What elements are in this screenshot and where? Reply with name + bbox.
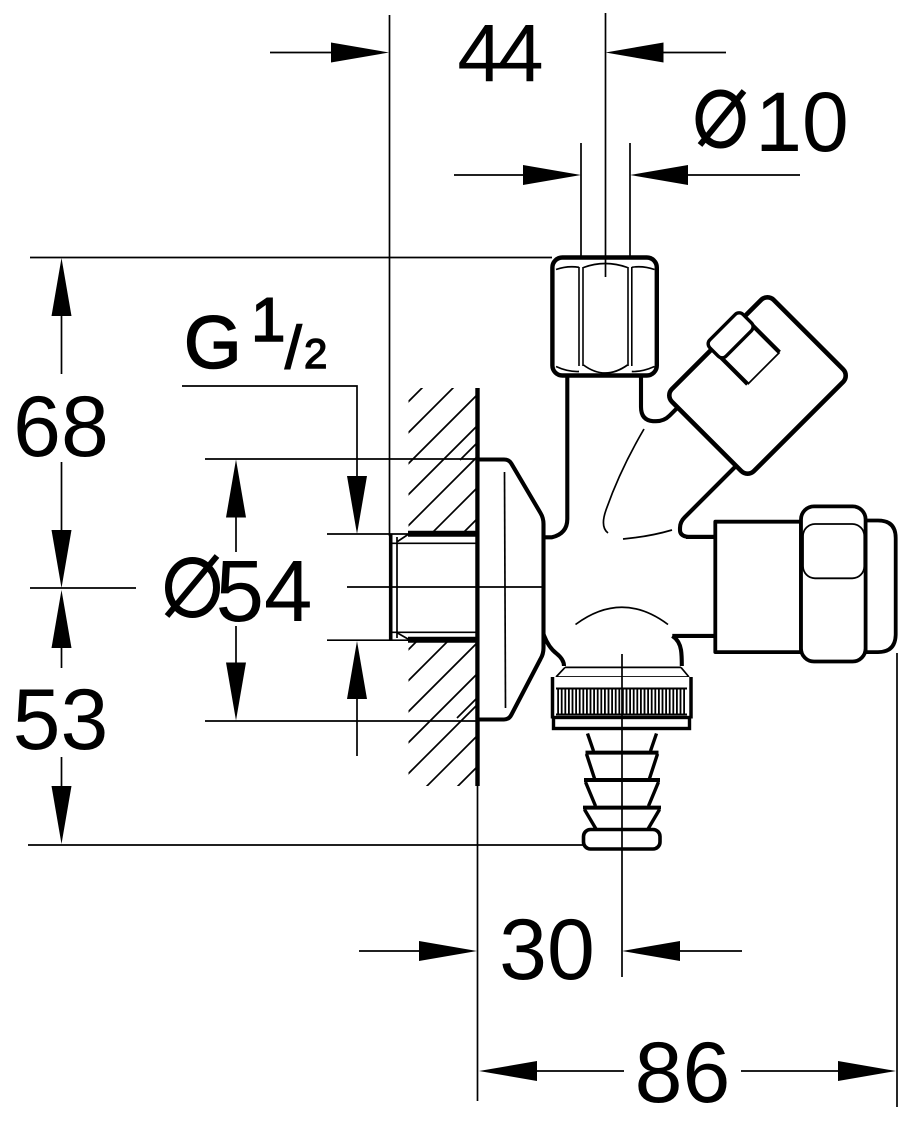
hex nut facet lines: [578, 267, 580, 366]
45deg tube lower wall / pocket: [680, 466, 736, 537]
barb ridge lines: [586, 751, 659, 755]
dimension 86 line: [533, 1070, 624, 1072]
svg-text:G: G: [184, 301, 242, 384]
wall face line: [475, 388, 479, 786]
top outlet neck right / 45deg tube upper wall: [641, 376, 679, 421]
svg-text:2: 2: [304, 330, 327, 377]
dimension 68 arrows: [61, 310, 63, 374]
thread pipe end face: [389, 534, 393, 642]
G1/2 thread crest bars: [408, 531, 477, 537]
bottom outlet centreline / 30 extension: [621, 654, 623, 977]
thread end face inner line: [396, 537, 398, 638]
dimension Ø54 text: [169, 561, 217, 615]
thread diameter reference lines: [327, 533, 410, 535]
wall hatching: [20, 385, 859, 790]
dimension 44 extension line: [389, 15, 391, 536]
hose barb: [585, 734, 660, 830]
bottom outlet pocket left wall: [544, 634, 565, 666]
centre tick line: [30, 587, 136, 589]
G 1/2 leader line: [182, 386, 357, 486]
45deg collar: [706, 311, 755, 360]
svg-text:30: 30: [499, 902, 595, 998]
svg-text:86: 86: [635, 1025, 731, 1121]
handle body housing: [715, 522, 801, 652]
right outlet tube stubs: [686, 535, 716, 539]
valve ball bottom arc: [576, 607, 669, 624]
dimension Ø10 text: [699, 93, 742, 145]
knurled nut bottom ring: [554, 718, 690, 729]
svg-text:/: /: [285, 314, 302, 381]
45deg nut facet line: [748, 352, 780, 384]
dimension 68 top reference line: [30, 257, 552, 259]
svg-text:44: 44: [457, 8, 542, 99]
dimension 30 arrow right: [676, 950, 742, 952]
bottom extension line left: [477, 786, 479, 1101]
svg-text:1: 1: [251, 286, 285, 355]
svg-text:54: 54: [216, 543, 313, 640]
dimension 30 arrow left: [359, 950, 424, 952]
top outlet centreline: [605, 13, 607, 277]
dimension Ø10 arrow right: [683, 174, 800, 176]
bell inner contour line: [505, 472, 506, 708]
45deg coupling nut: [660, 288, 850, 478]
knurled nut main band: [553, 677, 692, 719]
bottom outlet pocket right wall: [672, 636, 682, 666]
dimension 44 arrow right: [655, 52, 726, 54]
dimension 53 arrows: [61, 644, 63, 668]
knurl texture: [557, 689, 687, 715]
dimension Ø10 arrow left: [454, 174, 528, 176]
45deg nut socket edge lines: [716, 353, 747, 384]
hex union nut: [552, 258, 656, 376]
dimension Ø54 reference lines: [205, 458, 480, 460]
hose barb end cap: [584, 830, 661, 850]
dimension 44 arrow left: [270, 52, 345, 54]
valve ball contour curves: [603, 429, 644, 533]
svg-text:53: 53: [13, 672, 109, 768]
escutcheon bell: [478, 460, 544, 720]
thread diameter arrow up: [356, 692, 358, 756]
thread end chamfer: [398, 535, 409, 542]
inlet centreline: [347, 586, 543, 588]
pipe Ø10 lines: [580, 143, 582, 257]
svg-text:68: 68: [13, 379, 109, 475]
svg-text:10: 10: [755, 75, 848, 169]
dimension Ø54 arrows: [235, 512, 237, 552]
handle grip: [801, 506, 866, 661]
dimension 53 bottom reference line: [28, 844, 585, 846]
handle end cap: [866, 521, 896, 653]
handle grip face square: [803, 524, 864, 578]
knurled nut chamfer band: [556, 667, 689, 677]
top outlet neck left: [544, 376, 568, 537]
extension line right: [896, 653, 898, 1107]
G1/2 male thread root lines: [392, 542, 477, 544]
hex nut chamfer arcs: [556, 264, 655, 374]
